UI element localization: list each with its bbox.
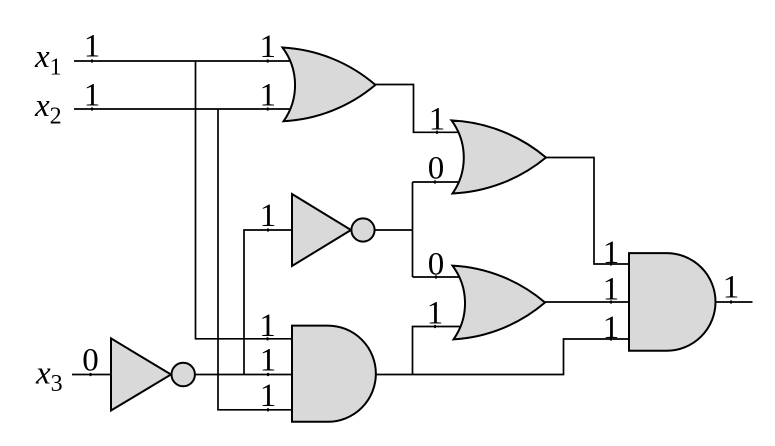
tick OR3 in1 xyxy=(435,275,437,278)
wire NOT1 output to AND1 middle input xyxy=(195,374,292,376)
svg-text:0: 0 xyxy=(428,150,445,186)
wire x3 input xyxy=(72,374,112,376)
svg-text:1: 1 xyxy=(723,270,740,306)
wire to OR3 upper input xyxy=(413,276,463,278)
not-gate NOT1 bubble xyxy=(172,363,195,386)
not-gate NOT2 bubble xyxy=(351,218,374,241)
wire OR2 output to AND2 top input xyxy=(545,158,630,265)
tick AND1 in1 xyxy=(267,337,269,340)
tick AND1 in3 xyxy=(267,408,269,411)
or-gate OR2 xyxy=(452,120,547,193)
wire x1 horizontal xyxy=(74,60,298,62)
tick x1 xyxy=(91,59,93,62)
wire branch to NOT2 input xyxy=(244,230,292,375)
tick OR2 in2 xyxy=(434,180,436,183)
wire branch to OR3 lower input xyxy=(413,327,463,375)
tick OR1 in1 xyxy=(267,59,269,62)
or-gate OR3 xyxy=(453,266,546,340)
wire AND2 output xyxy=(716,301,753,303)
wire x1 branch to AND1 top input xyxy=(196,61,293,339)
wire OR1 output to OR2 top input xyxy=(375,85,462,133)
tick AND2 in1 xyxy=(610,262,612,265)
tick AND1 in2 xyxy=(267,373,269,376)
or-gate OR1 xyxy=(283,48,376,122)
tick OR2 in1 xyxy=(436,131,438,134)
tick AND2 in2 xyxy=(610,300,612,303)
wire AND1 output to AND2 bottom input xyxy=(375,339,630,375)
tick OR3 in2 xyxy=(434,325,436,328)
tick x3 xyxy=(90,373,92,376)
wire OR3 output to AND2 middle input xyxy=(544,301,630,303)
tick NOT2 in xyxy=(267,228,269,231)
not-gate NOT2 triangle xyxy=(292,194,351,266)
wire x2 branch to AND1 bottom input xyxy=(218,109,292,410)
tick x2 xyxy=(91,107,93,110)
svg-text:1: 1 xyxy=(84,29,101,65)
tick AND2 out xyxy=(730,300,732,303)
wire to OR2 lower input xyxy=(413,181,463,183)
wire node vertical OR2/OR3 xyxy=(412,182,414,277)
wire x2 horizontal xyxy=(74,108,298,110)
and-gate AND1 xyxy=(292,326,376,422)
tick AND2 in3 xyxy=(610,337,612,340)
tick OR1 in2 xyxy=(267,107,269,110)
wire NOT2 output xyxy=(375,229,413,231)
not-gate NOT1 triangle xyxy=(111,338,171,410)
and-gate AND2 xyxy=(629,253,716,351)
